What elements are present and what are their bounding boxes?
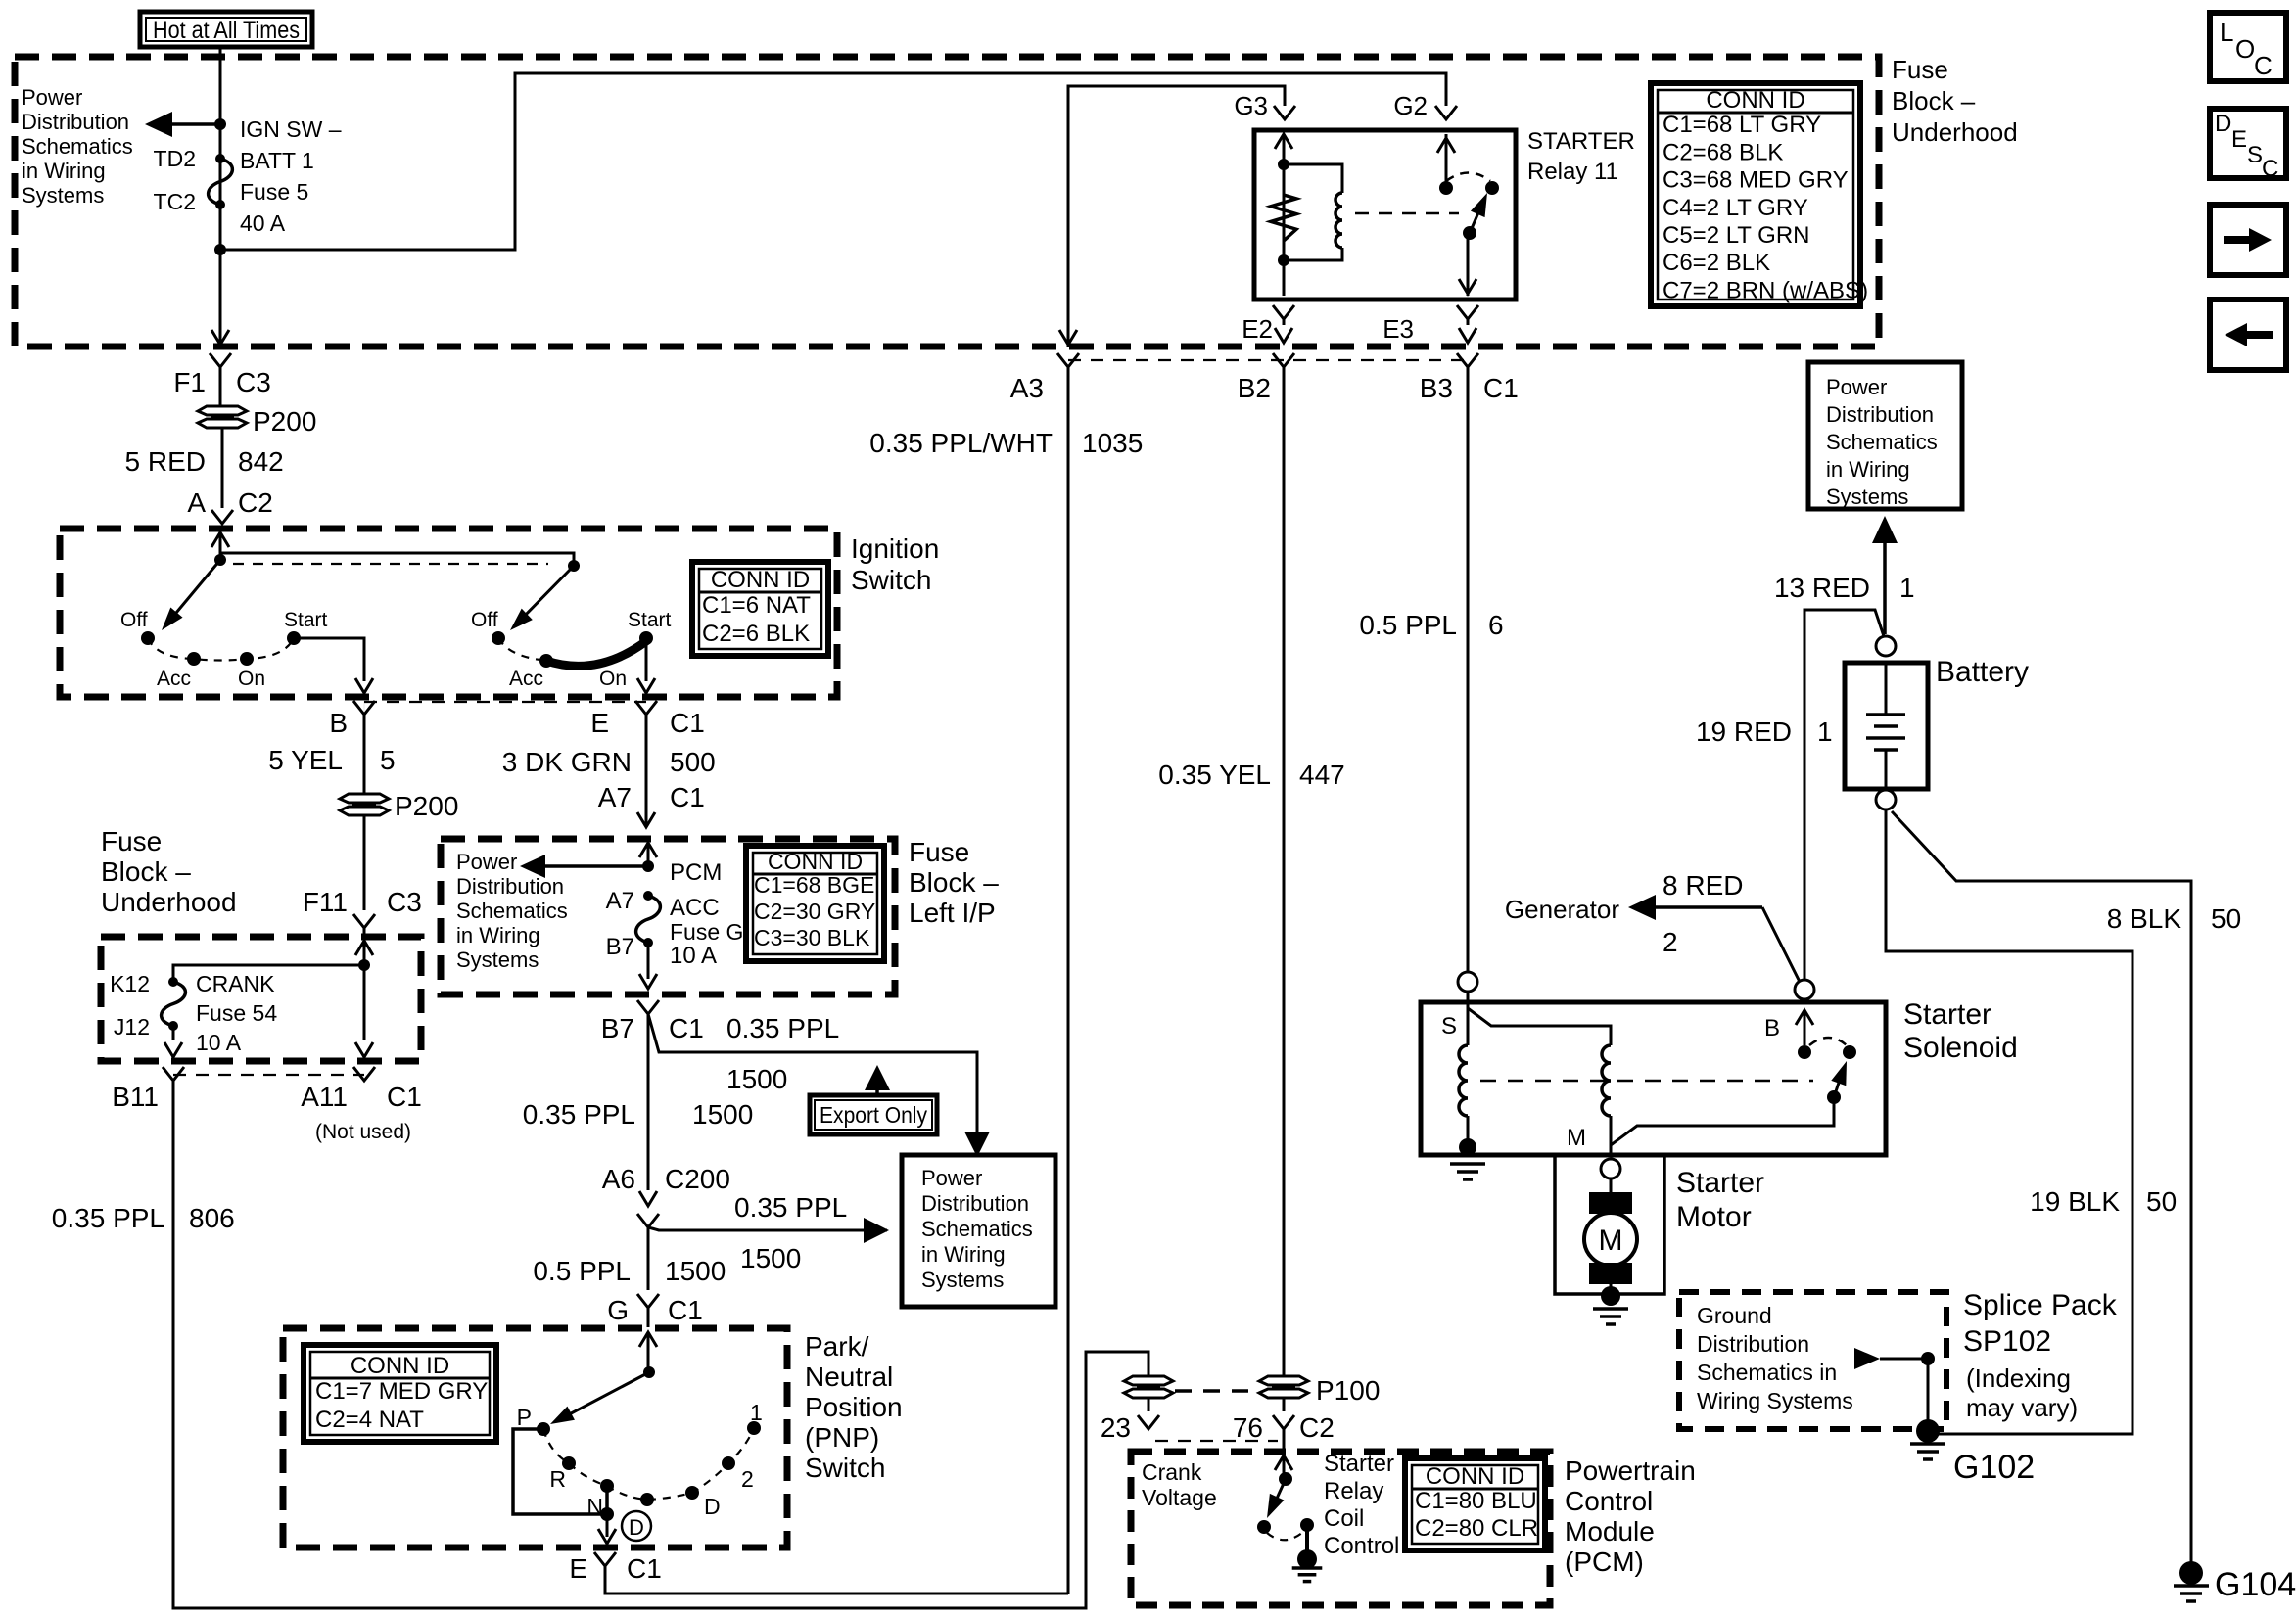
ignition switch dashed box xyxy=(60,529,837,697)
svg-text:D: D xyxy=(2215,111,2231,137)
svg-text:C1: C1 xyxy=(668,1295,703,1325)
svg-text:Fuse 54: Fuse 54 xyxy=(196,1000,277,1026)
svg-text:1500: 1500 xyxy=(740,1243,801,1273)
wire 0.35 PPL 1500 (mid) xyxy=(647,1014,650,1190)
left bank contacts xyxy=(141,631,155,645)
svg-text:Acc: Acc xyxy=(157,668,191,690)
svg-text:Switch: Switch xyxy=(851,565,931,595)
starter motor xyxy=(1610,1178,1613,1194)
connector G3 into relay xyxy=(1274,106,1295,119)
svg-text:Position: Position xyxy=(805,1392,903,1422)
fuse block underhood dashed box (top) xyxy=(15,57,1879,346)
svg-text:Fuse G: Fuse G xyxy=(670,919,743,945)
solenoid switch dashed arc xyxy=(1809,1038,1847,1045)
svg-text:1500: 1500 xyxy=(726,1064,787,1094)
svg-text:1500: 1500 xyxy=(692,1099,753,1130)
svg-text:J12: J12 xyxy=(114,1014,150,1039)
svg-text:0.35 PPL: 0.35 PPL xyxy=(734,1192,847,1223)
svg-text:A7: A7 xyxy=(598,782,632,812)
svg-text:Starter: Starter xyxy=(1676,1167,1764,1199)
ignition feed entry xyxy=(211,532,229,547)
svg-text:Fuse: Fuse xyxy=(909,837,969,867)
A11 exit arrow xyxy=(355,1042,373,1057)
connector B7 C1 below left IP xyxy=(637,1000,659,1014)
branch 0.35 PPL 1500 to power dist box xyxy=(648,1227,887,1230)
relay coil branch wire xyxy=(1275,134,1292,149)
svg-text:1035: 1035 xyxy=(1082,428,1143,458)
svg-text:10 A: 10 A xyxy=(670,943,717,969)
svg-text:Block –: Block – xyxy=(909,867,999,898)
svg-text:23: 23 xyxy=(1101,1412,1131,1443)
connector row B / E below ignition switch xyxy=(353,701,375,715)
svg-text:8 BLK: 8 BLK xyxy=(2107,903,2182,934)
dashed link C1 connector row xyxy=(1068,359,1468,361)
svg-text:(PCM): (PCM) xyxy=(1565,1547,1644,1577)
svg-text:500: 500 xyxy=(670,747,716,777)
svg-text:Powertrain: Powertrain xyxy=(1565,1455,1696,1486)
svg-text:E3: E3 xyxy=(1382,314,1414,344)
svg-text:C1=7 MED GRY: C1=7 MED GRY xyxy=(315,1378,488,1405)
wire 0.35 YEL 447 relay coil control xyxy=(1283,367,1286,1376)
icon box: LOC xyxy=(2210,13,2286,81)
svg-text:R: R xyxy=(549,1466,566,1492)
conn id table: starter relay xyxy=(1651,83,1860,306)
svg-text:CONN ID: CONN ID xyxy=(768,849,863,874)
svg-text:C1: C1 xyxy=(387,1082,422,1112)
svg-text:Start: Start xyxy=(628,609,672,631)
svg-text:C2: C2 xyxy=(1299,1412,1335,1443)
splice pack dashed box xyxy=(1679,1292,1946,1429)
wire 5 YEL 5 xyxy=(363,715,366,793)
fuse54 output arrow xyxy=(172,1026,175,1039)
PNP output E xyxy=(606,1514,609,1537)
svg-text:Fuse: Fuse xyxy=(1892,55,1948,84)
svg-text:Solenoid: Solenoid xyxy=(1903,1032,2018,1064)
svg-text:C1=80 BLU: C1=80 BLU xyxy=(1415,1488,1537,1514)
svg-text:Systems: Systems xyxy=(921,1268,1004,1292)
ignition bus wire to right bank xyxy=(220,553,574,566)
svg-text:C2=68 BLK: C2=68 BLK xyxy=(1663,139,1783,165)
svg-text:C3: C3 xyxy=(236,367,271,397)
svg-text:Left I/P: Left I/P xyxy=(909,898,996,928)
svg-text:TC2: TC2 xyxy=(154,189,196,214)
svg-text:1: 1 xyxy=(1899,573,1915,603)
relay coil xyxy=(1284,164,1342,193)
svg-text:C3=30 BLK: C3=30 BLK xyxy=(754,925,870,950)
svg-text:Control: Control xyxy=(1565,1486,1653,1516)
wire 5 RED 842 xyxy=(221,429,224,508)
ignition junction dot xyxy=(214,554,226,566)
svg-text:40 A: 40 A xyxy=(240,210,286,236)
ignition mechanical link dashed xyxy=(233,563,548,565)
PNP wiper arm xyxy=(643,1366,655,1378)
svg-text:C3=68 MED GRY: C3=68 MED GRY xyxy=(1663,167,1849,194)
solenoid mech dashed link xyxy=(1480,1080,1813,1083)
svg-text:1: 1 xyxy=(750,1400,763,1425)
svg-text:Systems: Systems xyxy=(22,183,104,208)
svg-text:Underhood: Underhood xyxy=(1892,117,2018,147)
right bank start wire to E xyxy=(645,638,648,681)
svg-text:Start: Start xyxy=(284,609,328,631)
svg-text:Power: Power xyxy=(22,85,82,110)
svg-text:C2: C2 xyxy=(238,487,273,518)
svg-text:447: 447 xyxy=(1299,760,1345,790)
PCM ACC Fuse G 10A xyxy=(643,891,653,901)
ground G102 xyxy=(1916,1419,1940,1443)
F11 entry arrow xyxy=(355,941,373,955)
svg-text:in Wiring: in Wiring xyxy=(1826,457,1910,482)
svg-text:5 YEL: 5 YEL xyxy=(268,745,343,775)
svg-text:TD2: TD2 xyxy=(154,146,196,171)
svg-text:Off: Off xyxy=(471,609,498,631)
battery cell symbol xyxy=(1885,663,1888,715)
svg-text:Underhood: Underhood xyxy=(101,887,237,917)
relay switch xyxy=(1445,134,1448,186)
splice wire and arrow xyxy=(1854,1348,1880,1369)
svg-text:Relay: Relay xyxy=(1324,1478,1383,1504)
relay mech dashed link xyxy=(1355,212,1459,215)
svg-text:Fuse: Fuse xyxy=(101,826,162,856)
connector A6 C200 xyxy=(639,1191,657,1206)
B terminal xyxy=(1795,980,1814,999)
svg-text:C4=2 LT GRY: C4=2 LT GRY xyxy=(1663,195,1808,221)
svg-text:C1=6 NAT: C1=6 NAT xyxy=(702,592,811,619)
svg-text:Generator: Generator xyxy=(1505,895,1619,924)
svg-text:B3: B3 xyxy=(1420,373,1453,403)
svg-text:Crank: Crank xyxy=(1142,1459,1202,1485)
CRANK Fuse 54 10A xyxy=(168,977,178,987)
svg-text:Distribution: Distribution xyxy=(921,1191,1029,1216)
svg-text:3 DK GRN: 3 DK GRN xyxy=(502,747,632,777)
svg-text:BATT 1: BATT 1 xyxy=(240,148,314,173)
svg-text:G: G xyxy=(607,1295,629,1325)
svg-text:0.35 PPL: 0.35 PPL xyxy=(52,1203,164,1233)
svg-text:Hot at All Times: Hot at All Times xyxy=(153,17,300,44)
dashed link P100 xyxy=(1175,1389,1257,1393)
wire 0.5 PPL 6 to solenoid S xyxy=(1467,367,1470,972)
svg-text:Coil: Coil xyxy=(1324,1505,1364,1532)
wire branch 1500 to export only power dist xyxy=(648,1014,977,1135)
svg-text:Park/: Park/ xyxy=(805,1331,869,1362)
wire 0.5 PPL 1500 (lower) xyxy=(647,1227,650,1290)
svg-text:may vary): may vary) xyxy=(1966,1393,2078,1422)
powertrain control module dashed box xyxy=(1131,1452,1550,1605)
svg-text:in Wiring: in Wiring xyxy=(456,923,540,947)
svg-text:C2=80 CLR: C2=80 CLR xyxy=(1415,1515,1538,1542)
svg-text:Battery: Battery xyxy=(1936,656,2029,688)
relay pins E2 E3 out xyxy=(1273,305,1294,319)
svg-text:Switch: Switch xyxy=(805,1453,885,1483)
wire 0.35 PPL/WHT 1035 crank voltage xyxy=(1067,367,1070,1594)
wire: A3/G3 crank voltage wire upper run xyxy=(1068,86,1285,347)
thick ON arc (switch engaged) xyxy=(546,641,646,666)
PCM 76 entry arrow xyxy=(1283,1429,1286,1455)
svg-text:C5=2 LT GRN: C5=2 LT GRN xyxy=(1663,222,1810,249)
PNP P-N jumper wire xyxy=(513,1429,607,1514)
svg-text:A3: A3 xyxy=(1010,373,1044,403)
connector A3 below fuse block xyxy=(1059,330,1077,345)
svg-text:Power: Power xyxy=(1826,375,1887,399)
battery negative terminal xyxy=(1876,790,1896,809)
svg-text:76: 76 xyxy=(1233,1412,1263,1443)
svg-text:50: 50 xyxy=(2211,903,2241,934)
svg-text:(Indexing: (Indexing xyxy=(1966,1363,2071,1393)
svg-text:8 RED: 8 RED xyxy=(1663,870,1743,901)
arrow to power dist schematics xyxy=(529,864,648,868)
PCM relay driver switch xyxy=(1279,1472,1292,1486)
svg-text:10 A: 10 A xyxy=(196,1030,242,1055)
svg-text:Wiring Systems: Wiring Systems xyxy=(1697,1388,1853,1413)
svg-text:842: 842 xyxy=(238,446,284,477)
svg-text:0.35 PPL: 0.35 PPL xyxy=(523,1099,635,1130)
fuse block underhood 2 dashed box xyxy=(101,937,421,1061)
svg-text:P200: P200 xyxy=(395,791,458,821)
svg-text:C: C xyxy=(2262,156,2278,182)
svg-text:Motor: Motor xyxy=(1676,1201,1752,1233)
svg-text:0.5 PPL: 0.5 PPL xyxy=(533,1256,631,1286)
svg-text:A7: A7 xyxy=(606,888,634,914)
svg-text:E: E xyxy=(590,708,609,738)
svg-text:S: S xyxy=(2247,142,2263,168)
starter motor enclosure xyxy=(1555,1155,1664,1294)
svg-text:B11: B11 xyxy=(112,1082,159,1112)
svg-text:Voltage: Voltage xyxy=(1142,1485,1217,1510)
icon box: prev arrow xyxy=(2210,300,2286,370)
svg-text:Relay 11: Relay 11 xyxy=(1527,159,1618,185)
icon box: next arrow xyxy=(2210,205,2286,275)
svg-text:13 RED: 13 RED xyxy=(1774,573,1870,603)
wire: branch to relay G2 xyxy=(220,73,1446,250)
arrow to power distribution schematics xyxy=(171,122,220,126)
svg-text:B: B xyxy=(329,708,348,738)
svg-text:G3: G3 xyxy=(1234,91,1268,120)
icon box: DESC xyxy=(2210,109,2286,178)
svg-text:Schematics: Schematics xyxy=(1826,430,1938,454)
connector P100 (76) with label xyxy=(1259,1376,1308,1385)
svg-text:F11: F11 xyxy=(303,887,348,917)
wire into S terminal xyxy=(1458,972,1477,992)
svg-text:Off: Off xyxy=(120,609,148,631)
wire F11 from P200 xyxy=(363,701,365,715)
svg-text:(PNP): (PNP) xyxy=(805,1422,879,1453)
svg-text:6: 6 xyxy=(1488,610,1504,640)
svg-text:G104: G104 xyxy=(2215,1566,2296,1603)
connector P200 (upper) xyxy=(198,406,247,415)
svg-text:PCM: PCM xyxy=(670,859,722,886)
svg-text:Splice Pack: Splice Pack xyxy=(1963,1289,2118,1321)
svg-text:C1: C1 xyxy=(670,782,705,812)
svg-text:C3: C3 xyxy=(387,887,422,917)
svg-text:CONN ID: CONN ID xyxy=(711,567,810,593)
pull-in to M terminal xyxy=(1610,1116,1613,1155)
PNP contacts arc xyxy=(543,1428,754,1500)
connector row B11 / A11 C1 xyxy=(163,1067,184,1081)
svg-text:D: D xyxy=(704,1494,721,1519)
svg-text:C1: C1 xyxy=(1483,373,1519,403)
svg-text:B2: B2 xyxy=(1238,373,1271,403)
wire 3 DK GRN 500 xyxy=(645,715,648,827)
svg-text:G102: G102 xyxy=(1953,1449,2035,1486)
relay resistor xyxy=(1271,195,1296,241)
conn id table: left IP fuse block xyxy=(746,846,884,961)
wire battery negative to 8 BLK 50 (G104 path) xyxy=(1892,811,2191,1566)
svg-text:Neutral: Neutral xyxy=(805,1362,893,1392)
svg-text:0.35 PPL/WHT: 0.35 PPL/WHT xyxy=(869,428,1053,458)
svg-text:On: On xyxy=(599,668,627,690)
svg-text:C2=6 BLK: C2=6 BLK xyxy=(702,621,810,647)
svg-text:G2: G2 xyxy=(1393,91,1428,120)
generator tap 8 RED 2 xyxy=(1655,905,1762,909)
svg-text:C1=68 BGE: C1=68 BGE xyxy=(754,872,874,898)
svg-text:STARTER: STARTER xyxy=(1527,128,1635,155)
svg-text:Module: Module xyxy=(1565,1516,1655,1547)
svg-text:ACC: ACC xyxy=(670,895,720,921)
svg-text:S: S xyxy=(1441,1013,1457,1039)
svg-text:Ground: Ground xyxy=(1697,1303,1772,1328)
connector row 23 / 76 C2 xyxy=(1138,1415,1159,1429)
svg-text:1: 1 xyxy=(1817,716,1833,747)
svg-text:A11: A11 xyxy=(301,1082,348,1112)
svg-text:C1: C1 xyxy=(627,1553,662,1584)
connector G2 into relay xyxy=(1435,106,1457,119)
wire F1 to P200 xyxy=(219,367,222,405)
motor ground xyxy=(1601,1286,1620,1306)
svg-text:P200: P200 xyxy=(253,406,316,437)
conn id table: PCM xyxy=(1405,1458,1545,1550)
svg-text:in Wiring: in Wiring xyxy=(921,1242,1006,1267)
svg-text:2: 2 xyxy=(741,1466,754,1492)
left bank start wire to B xyxy=(294,638,364,681)
svg-text:A: A xyxy=(187,487,206,518)
svg-text:(Not used): (Not used) xyxy=(315,1121,411,1143)
svg-text:Starter: Starter xyxy=(1903,998,1991,1031)
circled D indicator xyxy=(622,1511,651,1541)
battery box xyxy=(1845,663,1928,789)
connector P200 (lower) xyxy=(340,794,389,803)
svg-text:Schematics: Schematics xyxy=(456,899,568,923)
svg-text:in Wiring: in Wiring xyxy=(22,159,106,183)
svg-text:2: 2 xyxy=(1663,927,1678,957)
svg-text:Block –: Block – xyxy=(1892,86,1976,115)
svg-text:CONN ID: CONN ID xyxy=(351,1353,449,1379)
svg-text:Systems: Systems xyxy=(1826,485,1908,509)
M terminal connector xyxy=(1601,1159,1620,1178)
connector E C1 below PNP xyxy=(594,1552,616,1566)
svg-text:C2=4 NAT: C2=4 NAT xyxy=(315,1407,424,1433)
svg-text:E2: E2 xyxy=(1242,314,1273,344)
right bank contacts xyxy=(492,631,505,645)
connector B2 below fuse block xyxy=(1273,353,1294,367)
solenoid winding feed to pull-in xyxy=(1468,1008,1611,1045)
svg-text:P: P xyxy=(517,1405,532,1430)
connector B3 C1 below fuse block xyxy=(1457,353,1478,367)
svg-text:Power: Power xyxy=(921,1166,982,1190)
svg-text:19 RED: 19 RED xyxy=(1696,716,1792,747)
svg-text:Control: Control xyxy=(1324,1533,1399,1559)
svg-text:C200: C200 xyxy=(665,1164,730,1194)
svg-text:Schematics: Schematics xyxy=(921,1217,1033,1241)
svg-text:Block –: Block – xyxy=(101,856,191,887)
connector G C1 into PNP switch xyxy=(637,1294,659,1308)
battery positive terminal xyxy=(1876,636,1896,656)
svg-text:Distribution: Distribution xyxy=(1826,402,1934,427)
svg-text:Schematics in: Schematics in xyxy=(1697,1360,1837,1385)
svg-text:C1: C1 xyxy=(669,1013,704,1043)
PNP entry arrow xyxy=(639,1332,657,1347)
svg-text:0.35 YEL: 0.35 YEL xyxy=(1158,760,1271,790)
svg-text:D: D xyxy=(629,1515,644,1540)
svg-text:Acc: Acc xyxy=(509,668,543,690)
svg-text:806: 806 xyxy=(189,1203,235,1233)
left wiper arm xyxy=(166,560,220,624)
svg-text:Schematics: Schematics xyxy=(22,134,133,159)
label box: Hot at All Times xyxy=(140,12,312,47)
svg-text:B: B xyxy=(1764,1015,1780,1041)
junction dot to G2 branch xyxy=(214,244,226,255)
svg-text:Ignition: Ignition xyxy=(851,533,939,564)
fuse F5 IGN SW - BATT 1 40 A xyxy=(215,154,225,163)
junction dot xyxy=(214,118,226,130)
svg-text:E: E xyxy=(569,1553,587,1584)
connector P100 (23) xyxy=(1124,1376,1173,1385)
solenoid switch arm xyxy=(1827,1090,1841,1104)
A7 entry arrow xyxy=(639,843,657,857)
svg-text:5: 5 xyxy=(380,745,396,775)
svg-text:Starter: Starter xyxy=(1324,1451,1394,1477)
solenoid hold-in winding xyxy=(1467,992,1470,1045)
park/neutral position switch dashed box xyxy=(283,1328,787,1548)
svg-text:Systems: Systems xyxy=(456,947,539,972)
relay switch arm xyxy=(1463,226,1476,240)
svg-text:IGN SW –: IGN SW – xyxy=(240,116,342,142)
arrow up from export only xyxy=(875,1073,879,1095)
svg-text:L: L xyxy=(2220,18,2233,47)
svg-text:E: E xyxy=(2231,126,2247,153)
svg-text:P100: P100 xyxy=(1316,1375,1380,1406)
junction dot and crank fuse feed xyxy=(358,959,370,971)
wire: hot feed down from Hot at All Times xyxy=(219,46,222,345)
svg-text:B7: B7 xyxy=(601,1013,634,1043)
svg-text:0.5 PPL: 0.5 PPL xyxy=(1359,610,1457,640)
right wiper arm xyxy=(516,566,574,624)
svg-text:M: M xyxy=(1567,1125,1586,1151)
wire E to fuse block A3 (1035 net) xyxy=(605,1566,1068,1594)
svg-text:F1: F1 xyxy=(173,367,206,397)
svg-text:C1: C1 xyxy=(670,708,705,738)
arrow up from battery to power dist box xyxy=(1883,543,1887,634)
conn id table: PNP switch xyxy=(304,1345,496,1442)
svg-text:5 RED: 5 RED xyxy=(125,446,206,477)
power distribution schematics box (top right) xyxy=(1808,362,1962,509)
PCM driver ground xyxy=(1305,1525,1309,1551)
svg-text:19 BLK: 19 BLK xyxy=(2030,1186,2120,1217)
svg-text:Fuse 5: Fuse 5 xyxy=(240,179,308,205)
wire 13 RED 1 xyxy=(1804,610,1884,980)
svg-text:50: 50 xyxy=(2146,1186,2177,1217)
svg-text:Power: Power xyxy=(456,850,517,874)
conn id table: ignition switch xyxy=(692,562,828,656)
starter solenoid box xyxy=(1421,1002,1886,1155)
export only box xyxy=(810,1095,937,1134)
svg-text:On: On xyxy=(238,668,265,690)
hold-in ground xyxy=(1459,1138,1476,1156)
wire battery negative to 19 BLK 50 (G102 path) xyxy=(1886,809,2132,1434)
svg-text:C6=2 BLK: C6=2 BLK xyxy=(1663,250,1770,276)
ground G104 xyxy=(2179,1561,2203,1585)
svg-text:Distribution: Distribution xyxy=(1697,1331,1809,1357)
fuse G output xyxy=(647,943,650,979)
svg-text:SP102: SP102 xyxy=(1963,1325,2051,1358)
